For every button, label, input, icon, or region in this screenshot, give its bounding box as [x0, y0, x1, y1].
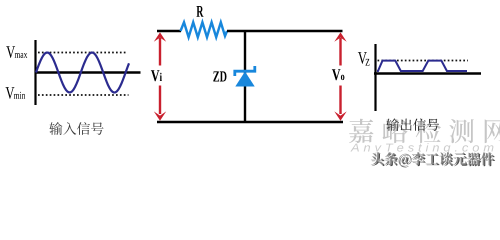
caption 头条@李工谈元器件 (embossed) — [370, 151, 495, 167]
input graph vertical axis — [34, 40, 36, 105]
zener diode ZD triangle — [235, 72, 254, 87]
top wire left segment — [157, 30, 181, 32]
input graph Vmin dotted level — [38, 94, 129, 96]
middle vertical wire — [244, 31, 246, 122]
output clipped waveform — [377, 61, 467, 71]
Vo arrow head down — [334, 111, 346, 120]
label Vo — [332, 69, 345, 80]
Vi arrow head up — [154, 32, 166, 41]
label Vz — [358, 52, 370, 66]
output graph horizontal axis — [374, 72, 481, 75]
input graph Vmax dotted level — [38, 52, 127, 54]
Vi arrow head down — [154, 111, 166, 120]
label Vi — [151, 70, 162, 81]
output graph vertical axis — [374, 44, 376, 111]
watermark AnyTesting.com — [350, 143, 493, 154]
label Vmin — [6, 87, 26, 99]
bottom wire — [157, 121, 343, 124]
label ZD — [213, 71, 226, 81]
zener diode ZD cathode bar — [235, 66, 255, 76]
input graph horizontal axis — [35, 71, 141, 74]
Vo arrow head up — [334, 32, 346, 41]
label 输入信号 — [49, 122, 103, 135]
watermark 嘉峪检测网 — [349, 119, 500, 144]
output graph Vz dotted level — [378, 60, 469, 62]
Vi arrow shaft — [159, 38, 161, 114]
top wire right segment — [227, 30, 343, 32]
Vo arrow shaft — [339, 38, 341, 114]
label R — [197, 6, 204, 17]
input sine waveform — [36, 53, 129, 93]
label 输出信号 — [386, 118, 439, 130]
resistor R zigzag — [181, 22, 228, 37]
label Vmax — [6, 46, 27, 58]
